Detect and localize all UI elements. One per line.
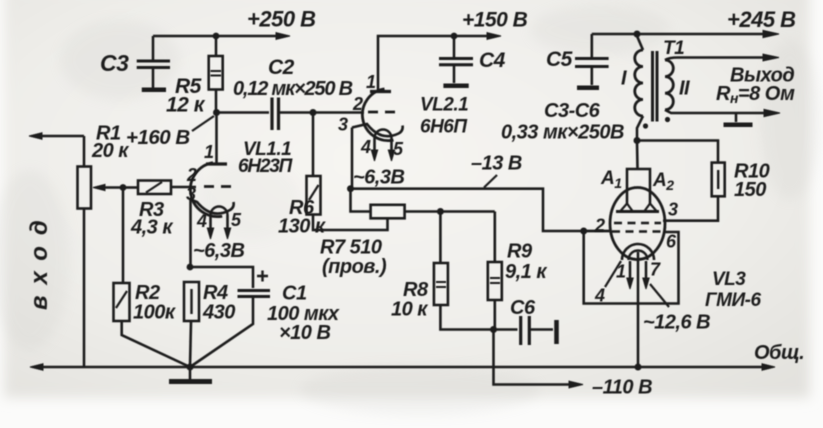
svg-text:6: 6 <box>666 232 677 252</box>
VL3 heater pins 1,7 <box>627 261 649 289</box>
node VL3 bus junction <box>635 364 642 371</box>
svg-text:С1: С1 <box>282 283 307 305</box>
capacitor C3 <box>137 36 170 90</box>
svg-text:9,1 к: 9,1 к <box>505 261 547 283</box>
wire R10 branch <box>637 141 718 163</box>
svg-text:R9: R9 <box>507 241 533 263</box>
wire VL3 cathode down to bus <box>637 252 640 367</box>
VL3 grid 2 dashed <box>612 230 663 233</box>
capacitor C5 <box>575 34 609 88</box>
svg-text:Т1: Т1 <box>663 38 684 59</box>
transformer T1 secondary winding II <box>665 58 780 117</box>
VL3 anode structure A1 A2 <box>616 169 659 212</box>
node grid box junction <box>580 228 587 235</box>
svg-text:С4: С4 <box>479 49 506 72</box>
svg-text:–13 В: –13 В <box>471 153 522 175</box>
svg-text:5: 5 <box>231 210 242 230</box>
node cathode junction <box>187 264 194 271</box>
svg-text:VL2.1: VL2.1 <box>420 95 468 116</box>
svg-text:7: 7 <box>650 260 661 280</box>
VL1.1 heater <box>207 207 230 240</box>
wire R9 top lead <box>493 212 496 263</box>
VL3 grid 1 dashed <box>614 222 661 225</box>
resistor R3 4,3k <box>138 181 171 195</box>
svg-text:4: 4 <box>360 137 371 157</box>
svg-text:1: 1 <box>616 262 626 282</box>
wire VL2 cathode lead <box>351 128 354 189</box>
node phase dot secondary <box>665 117 670 122</box>
wire R9 bottom lead <box>493 300 496 330</box>
wire pin 4 diagonal <box>605 261 621 287</box>
op-amp VL1.1 envelope <box>190 163 222 217</box>
resistor R6 130k <box>307 176 321 215</box>
svg-text:1: 1 <box>366 72 376 92</box>
wire R8 top lead <box>439 212 442 264</box>
wire input to R1 top <box>83 136 86 167</box>
svg-text:+250 В: +250 В <box>247 7 316 32</box>
svg-text:II: II <box>679 78 690 100</box>
svg-text:Rн=8 Ом: Rн=8 Ом <box>716 83 795 106</box>
VL2.1 heater <box>371 130 394 162</box>
wire VL3 anode lead <box>636 141 639 170</box>
node R8 top junction <box>437 208 444 215</box>
svg-text:6Н6П: 6Н6П <box>420 117 467 138</box>
node anode-R5-C2 junction <box>213 109 220 116</box>
svg-text:1: 1 <box>204 142 214 162</box>
svg-text:+245 В: +245 В <box>727 7 796 32</box>
svg-text:–110 В: –110 В <box>592 377 652 399</box>
wire pointer to 12,6V label <box>650 284 669 307</box>
svg-text:2: 2 <box>594 216 605 236</box>
wire VL3 grid feed <box>584 230 611 233</box>
wire R1 bottom to bus <box>83 209 86 368</box>
capacitor C6 <box>494 316 557 345</box>
wire C1 bottom diagonal to ground node <box>190 297 253 368</box>
wire bus (common rail) <box>30 364 775 370</box>
svg-text:~12,6 В: ~12,6 В <box>643 312 710 334</box>
wire R4 bottom to ground node <box>190 321 191 367</box>
node ground junction on bus <box>187 364 194 371</box>
svg-text:3: 3 <box>338 115 348 135</box>
VL1.1 grid dashed <box>204 185 232 188</box>
svg-text:С6: С6 <box>510 297 536 319</box>
wire R6 bottom to R7 tap <box>313 215 388 231</box>
VL2.1 cathode arc <box>352 124 403 136</box>
svg-text:430: 430 <box>202 302 235 324</box>
svg-text:3: 3 <box>186 184 196 204</box>
node cathode -13V junction <box>347 185 354 192</box>
wire R10 bottom to pin 3 <box>663 196 718 220</box>
wire R7 left lead to cathode line <box>351 189 371 212</box>
svg-text:2: 2 <box>352 94 363 114</box>
capacitor C2 coupling <box>217 98 365 131</box>
svg-text:150: 150 <box>734 179 766 201</box>
ground symbol <box>169 367 212 382</box>
wire R2 bottom diagonal to ground node <box>122 321 190 367</box>
T1 core <box>653 51 658 122</box>
wire output top with arrow <box>678 54 779 61</box>
VL3 cathode arcs <box>622 244 654 260</box>
svg-text:Общ.: Общ. <box>754 342 804 364</box>
wire grid loop box to pin 6 <box>584 231 679 304</box>
wire pointer to -13V label <box>484 175 497 188</box>
svg-text:5: 5 <box>393 139 404 159</box>
svg-text:ГМИ-6: ГМИ-6 <box>705 290 761 311</box>
node phase dot primary <box>643 123 648 128</box>
wire pointer to +160V label <box>192 116 214 131</box>
svg-text:+160 В: +160 В <box>126 126 190 149</box>
resistor R10 150 <box>712 163 725 197</box>
wire R5 bottom lead <box>215 90 218 113</box>
node junction grid-wire <box>120 184 127 191</box>
svg-text:VL3: VL3 <box>712 269 746 290</box>
svg-text:(пров.): (пров.) <box>322 256 387 278</box>
svg-text:6Н23П: 6Н23П <box>238 156 293 177</box>
node R6 top junction <box>310 109 317 116</box>
svg-text:~6,3В: ~6,3В <box>193 240 244 262</box>
svg-text:4: 4 <box>196 211 207 231</box>
svg-text:С3: С3 <box>100 50 129 76</box>
wire -13V run to VL3 grid <box>351 189 612 231</box>
wire VL1 anode lead <box>215 113 218 164</box>
output bottom terminal bar <box>724 113 753 125</box>
svg-text:4,3 к: 4,3 к <box>130 217 173 239</box>
resistor R2 100k <box>114 283 130 321</box>
wire R7 right lead <box>405 210 495 213</box>
wire R6 top lead <box>312 113 315 177</box>
svg-text:10 к: 10 к <box>391 299 428 321</box>
node R5 top junction <box>213 33 220 40</box>
wire -110V feed <box>494 330 584 388</box>
op-amp VL2.1 envelope <box>362 89 393 141</box>
VL2.1 grid dashed <box>368 111 397 114</box>
svg-text:4: 4 <box>594 286 605 306</box>
svg-text:3: 3 <box>668 200 678 220</box>
wire R1 wiper arrow <box>93 184 123 190</box>
wire +250V rail <box>153 33 290 40</box>
VL2.1 anode bar <box>370 90 391 93</box>
svg-text:2: 2 <box>186 165 197 185</box>
wire cathode node to C1 <box>190 267 253 288</box>
capacitor C4 <box>439 36 473 86</box>
wire junction to R3 <box>123 186 138 189</box>
resistor R4 430 <box>184 282 199 321</box>
wire VL1 cathode lead down <box>189 198 192 267</box>
VL1.1 cathode arc <box>191 200 234 214</box>
wire VL2 anode lead and +150V rail <box>378 33 501 91</box>
capacitor C1 100mkF (electrolytic, plus sign) <box>238 271 271 297</box>
node T1 primary top junction <box>634 31 641 38</box>
svg-text:0,33 мк×250В: 0,33 мк×250В <box>501 122 624 144</box>
wire R5 top lead <box>215 36 218 56</box>
resistor R1 (potentiometer 20k) <box>78 167 92 209</box>
svg-text:С2: С2 <box>268 56 295 79</box>
svg-text:С3-С6: С3-С6 <box>544 100 601 122</box>
node input terminal <box>29 133 84 139</box>
resistor R9 9,1k <box>488 262 502 300</box>
node R8-R9-C6 junction <box>490 326 497 333</box>
svg-text:20 к: 20 к <box>91 140 129 162</box>
svg-text:×10 В: ×10 В <box>279 322 330 344</box>
resistor R8 10k <box>434 263 448 305</box>
svg-text:12 к: 12 к <box>166 94 206 117</box>
resistor R5 12k <box>209 56 223 90</box>
wire R2 top lead <box>122 188 125 284</box>
svg-text:0,12 мк×250 В: 0,12 мк×250 В <box>233 78 353 100</box>
transistor VL3 envelope (GMI-6) <box>610 188 665 260</box>
svg-text:+150 В: +150 В <box>462 9 528 32</box>
wire R8 bottom to node <box>440 305 493 330</box>
svg-text:~6,3В: ~6,3В <box>353 167 404 189</box>
svg-text:100к: 100к <box>133 302 176 324</box>
svg-text:С5: С5 <box>546 48 573 71</box>
node C4 junction <box>451 33 458 40</box>
wire +245V rail <box>592 30 779 37</box>
svg-text:вход: вход <box>26 209 53 310</box>
node R10 branch junction <box>634 137 641 144</box>
resistor R7 510 wirewound <box>371 205 405 219</box>
VL1.1 anode bar <box>206 162 227 165</box>
svg-text:130 к: 130 к <box>278 216 326 238</box>
wire R3 to VL1 grid <box>171 186 196 189</box>
transformer T1 primary winding I <box>635 36 643 141</box>
